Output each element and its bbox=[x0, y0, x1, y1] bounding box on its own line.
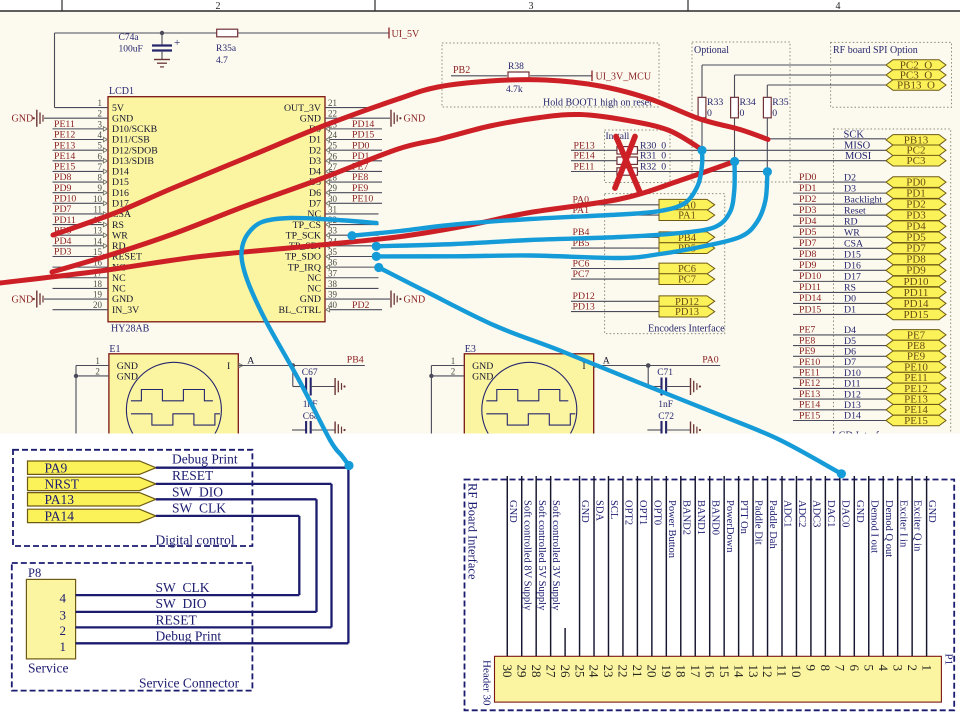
svg-text:2: 2 bbox=[905, 665, 920, 672]
svg-text:D15: D15 bbox=[112, 177, 129, 188]
svg-text:Power Button: Power Button bbox=[666, 500, 677, 559]
svg-text:PE11: PE11 bbox=[54, 119, 75, 130]
svg-text:D13/SDIB: D13/SDIB bbox=[112, 156, 154, 167]
svg-text:RF board SPI Option: RF board SPI Option bbox=[833, 45, 918, 56]
svg-text:PE12: PE12 bbox=[799, 378, 820, 389]
svg-text:GND: GND bbox=[579, 500, 590, 523]
svg-text:D0: D0 bbox=[844, 294, 856, 305]
svg-text:C67: C67 bbox=[302, 368, 318, 378]
svg-text:D5: D5 bbox=[844, 336, 856, 347]
svg-text:OPT1: OPT1 bbox=[637, 500, 648, 525]
svg-text:D14: D14 bbox=[112, 167, 129, 178]
svg-text:GND: GND bbox=[472, 372, 493, 383]
svg-text:1nF: 1nF bbox=[658, 400, 673, 410]
svg-text:26: 26 bbox=[558, 665, 573, 679]
svg-text:PD14: PD14 bbox=[799, 293, 821, 304]
svg-text:PD10: PD10 bbox=[799, 271, 821, 282]
svg-text:6: 6 bbox=[847, 665, 862, 672]
svg-text:10: 10 bbox=[789, 665, 804, 678]
svg-text:19: 19 bbox=[659, 665, 674, 678]
svg-text:GND: GND bbox=[300, 294, 321, 305]
svg-text:7: 7 bbox=[98, 162, 103, 172]
svg-text:A: A bbox=[247, 356, 254, 367]
svg-text:9: 9 bbox=[98, 183, 103, 193]
svg-text:MISO: MISO bbox=[844, 141, 871, 152]
svg-text:PE11: PE11 bbox=[574, 162, 595, 173]
svg-text:ADC2: ADC2 bbox=[796, 500, 807, 527]
svg-text:GND: GND bbox=[472, 361, 493, 372]
svg-text:3: 3 bbox=[529, 1, 534, 12]
svg-text:SCL: SCL bbox=[608, 500, 619, 519]
svg-text:OPT0: OPT0 bbox=[651, 500, 662, 525]
svg-text:GND: GND bbox=[112, 113, 133, 124]
svg-text:5V: 5V bbox=[112, 103, 124, 114]
svg-text:GND: GND bbox=[117, 361, 138, 372]
svg-text:1: 1 bbox=[95, 356, 100, 366]
svg-text:PD14: PD14 bbox=[352, 119, 374, 130]
svg-text:3: 3 bbox=[60, 607, 67, 622]
svg-text:18: 18 bbox=[673, 665, 688, 678]
svg-text:10: 10 bbox=[93, 194, 103, 204]
svg-text:PE13: PE13 bbox=[799, 389, 820, 400]
svg-text:25: 25 bbox=[572, 665, 587, 678]
svg-text:GND: GND bbox=[926, 500, 937, 523]
svg-text:PB4: PB4 bbox=[347, 355, 364, 366]
svg-text:28: 28 bbox=[529, 665, 544, 678]
svg-text:16: 16 bbox=[702, 665, 717, 679]
svg-text:Demod Q out: Demod Q out bbox=[883, 500, 894, 557]
svg-text:PD15: PD15 bbox=[352, 130, 374, 141]
svg-text:RS: RS bbox=[112, 220, 124, 231]
svg-text:2: 2 bbox=[95, 366, 100, 376]
svg-text:7: 7 bbox=[833, 665, 848, 672]
svg-text:PE15: PE15 bbox=[904, 415, 928, 427]
svg-text:PD0: PD0 bbox=[799, 172, 817, 183]
svg-text:C71: C71 bbox=[657, 368, 673, 378]
svg-text:PC6: PC6 bbox=[573, 258, 590, 269]
svg-text:R32 0: R32 0 bbox=[640, 162, 666, 173]
svg-text:D6: D6 bbox=[844, 347, 856, 358]
svg-text:Soft controlled 5V Supply: Soft controlled 5V Supply bbox=[536, 500, 547, 611]
svg-text:PE8: PE8 bbox=[352, 172, 368, 183]
svg-text:PE11: PE11 bbox=[799, 368, 820, 379]
svg-text:PD4: PD4 bbox=[799, 216, 817, 227]
svg-text:IN_3V: IN_3V bbox=[112, 305, 139, 316]
svg-text:D10/SCKB: D10/SCKB bbox=[112, 124, 158, 135]
svg-text:D16: D16 bbox=[112, 188, 129, 199]
svg-text:PD11: PD11 bbox=[799, 282, 821, 293]
svg-text:PE10: PE10 bbox=[352, 194, 373, 205]
svg-text:38: 38 bbox=[328, 279, 338, 289]
svg-text:4.7: 4.7 bbox=[216, 56, 228, 66]
svg-text:PD2: PD2 bbox=[799, 194, 817, 205]
svg-text:WR: WR bbox=[112, 230, 128, 241]
svg-text:GND: GND bbox=[300, 113, 321, 124]
svg-text:R30 0: R30 0 bbox=[640, 140, 666, 151]
svg-text:0: 0 bbox=[740, 108, 745, 119]
svg-text:PA14: PA14 bbox=[45, 509, 75, 524]
svg-text:GND: GND bbox=[854, 500, 865, 523]
svg-text:Header 30: Header 30 bbox=[481, 660, 493, 706]
svg-text:Hold BOOT1 high on reset: Hold BOOT1 high on reset bbox=[543, 98, 652, 109]
svg-text:RF Board Interface: RF Board Interface bbox=[466, 483, 480, 580]
svg-text:RESET: RESET bbox=[156, 612, 198, 627]
svg-text:SW DIO: SW DIO bbox=[156, 596, 207, 611]
svg-text:PE8: PE8 bbox=[799, 335, 815, 346]
svg-text:PTT On: PTT On bbox=[738, 500, 749, 535]
svg-text:PE14: PE14 bbox=[574, 151, 595, 162]
svg-text:37: 37 bbox=[328, 268, 338, 278]
svg-text:TP_SCK: TP_SCK bbox=[286, 230, 321, 241]
svg-text:2: 2 bbox=[216, 1, 221, 12]
svg-text:29: 29 bbox=[514, 665, 529, 678]
svg-text:C72: C72 bbox=[658, 412, 674, 422]
svg-text:24: 24 bbox=[587, 665, 602, 679]
svg-text:PC3: PC3 bbox=[907, 155, 926, 167]
svg-text:PD9: PD9 bbox=[54, 183, 72, 194]
svg-text:PD8: PD8 bbox=[799, 249, 817, 260]
svg-text:LCD1: LCD1 bbox=[109, 86, 134, 97]
svg-text:D12/SDOB: D12/SDOB bbox=[112, 145, 158, 156]
svg-text:2: 2 bbox=[98, 109, 103, 119]
svg-text:4.7k: 4.7k bbox=[506, 85, 523, 95]
svg-text:PA9: PA9 bbox=[45, 461, 68, 476]
svg-text:OUT_3V: OUT_3V bbox=[284, 103, 321, 114]
svg-text:14: 14 bbox=[93, 236, 103, 246]
svg-text:E3: E3 bbox=[465, 344, 476, 355]
svg-text:4: 4 bbox=[836, 1, 841, 12]
svg-text:WR: WR bbox=[844, 227, 860, 238]
svg-text:PC7: PC7 bbox=[573, 269, 590, 280]
svg-text:4: 4 bbox=[60, 591, 67, 606]
svg-text:GND: GND bbox=[112, 294, 133, 305]
svg-text:PA0: PA0 bbox=[702, 355, 719, 366]
svg-text:20: 20 bbox=[93, 300, 103, 310]
svg-text:6: 6 bbox=[98, 151, 103, 161]
svg-text:PA13: PA13 bbox=[45, 492, 75, 507]
svg-text:R33: R33 bbox=[707, 97, 723, 108]
svg-text:D7: D7 bbox=[309, 199, 321, 210]
svg-text:D11: D11 bbox=[844, 379, 861, 390]
svg-text:UI_3V_MCU: UI_3V_MCU bbox=[596, 72, 652, 83]
svg-text:PD3: PD3 bbox=[54, 247, 72, 258]
svg-text:1: 1 bbox=[919, 665, 934, 672]
svg-text:PE14: PE14 bbox=[54, 151, 75, 162]
svg-text:PE9: PE9 bbox=[352, 183, 368, 194]
svg-text:20: 20 bbox=[645, 665, 660, 678]
svg-text:39: 39 bbox=[328, 290, 338, 300]
svg-text:21: 21 bbox=[630, 665, 645, 678]
svg-text:OPT2: OPT2 bbox=[623, 500, 634, 525]
svg-text:D4: D4 bbox=[844, 325, 856, 336]
svg-text:GND: GND bbox=[117, 372, 138, 383]
svg-text:Demod I out: Demod I out bbox=[868, 500, 879, 553]
svg-text:11: 11 bbox=[775, 665, 790, 678]
svg-text:D7: D7 bbox=[844, 357, 856, 368]
svg-text:Reset: Reset bbox=[844, 205, 866, 216]
svg-text:D13: D13 bbox=[844, 400, 861, 411]
svg-text:C74a: C74a bbox=[119, 33, 140, 43]
svg-text:PD15: PD15 bbox=[903, 309, 929, 321]
svg-text:ADC3: ADC3 bbox=[811, 500, 822, 527]
svg-text:13: 13 bbox=[93, 226, 103, 236]
svg-text:SDA: SDA bbox=[594, 500, 605, 521]
svg-text:GND: GND bbox=[12, 114, 34, 125]
svg-text:Exciter I in: Exciter I in bbox=[897, 500, 908, 548]
svg-text:TP_IRQ: TP_IRQ bbox=[288, 262, 321, 273]
svg-text:D16: D16 bbox=[844, 261, 861, 272]
svg-text:DAC1: DAC1 bbox=[825, 500, 836, 527]
svg-text:PE10: PE10 bbox=[799, 357, 820, 368]
svg-text:D4: D4 bbox=[309, 167, 321, 178]
svg-text:23: 23 bbox=[601, 665, 616, 678]
svg-text:Debug Print: Debug Print bbox=[156, 628, 222, 643]
svg-text:PB2: PB2 bbox=[453, 65, 470, 76]
svg-text:PB13 O: PB13 O bbox=[897, 79, 935, 91]
svg-text:PE14: PE14 bbox=[799, 400, 820, 411]
svg-text:Paddle Dah: Paddle Dah bbox=[767, 500, 778, 549]
svg-text:Paddle Dit: Paddle Dit bbox=[753, 500, 764, 545]
svg-text:D6: D6 bbox=[309, 188, 321, 199]
svg-text:PD8: PD8 bbox=[54, 172, 72, 183]
svg-text:12: 12 bbox=[760, 665, 775, 678]
svg-text:Exciter Q in: Exciter Q in bbox=[912, 500, 923, 552]
svg-text:SW DIO: SW DIO bbox=[172, 485, 223, 500]
svg-text:PE13: PE13 bbox=[54, 140, 75, 151]
svg-text:NC: NC bbox=[307, 273, 321, 284]
svg-text:PE13: PE13 bbox=[574, 140, 595, 151]
svg-text:30: 30 bbox=[500, 665, 515, 678]
svg-text:2: 2 bbox=[451, 366, 456, 376]
svg-text:D12: D12 bbox=[844, 389, 861, 400]
svg-text:PD7: PD7 bbox=[799, 238, 817, 249]
svg-text:Backlight: Backlight bbox=[844, 194, 882, 205]
svg-text:BAND2: BAND2 bbox=[680, 500, 691, 535]
svg-text:17: 17 bbox=[688, 665, 703, 679]
svg-text:9: 9 bbox=[804, 665, 819, 672]
svg-text:PA1: PA1 bbox=[678, 211, 696, 222]
svg-text:PD9: PD9 bbox=[799, 260, 817, 271]
svg-text:4: 4 bbox=[98, 130, 103, 140]
svg-text:A: A bbox=[603, 356, 610, 367]
svg-text:D10: D10 bbox=[844, 368, 861, 379]
svg-text:18: 18 bbox=[93, 279, 103, 289]
svg-text:HY28AB: HY28AB bbox=[111, 324, 150, 335]
svg-text:Soft controlled 8V Supply: Soft controlled 8V Supply bbox=[521, 500, 532, 611]
svg-text:BAND0: BAND0 bbox=[709, 500, 720, 535]
svg-text:14: 14 bbox=[731, 665, 746, 679]
svg-text:PD13: PD13 bbox=[675, 307, 699, 318]
svg-text:E1: E1 bbox=[109, 344, 120, 355]
svg-text:NC: NC bbox=[112, 284, 126, 295]
svg-text:D11/CSB: D11/CSB bbox=[112, 135, 150, 146]
svg-text:DAC0: DAC0 bbox=[839, 500, 850, 527]
svg-text:ADC1: ADC1 bbox=[782, 500, 793, 527]
svg-text:PE9: PE9 bbox=[799, 346, 815, 357]
svg-text:D2: D2 bbox=[309, 145, 321, 156]
svg-text:NC: NC bbox=[112, 273, 126, 284]
svg-text:BL_CTRL: BL_CTRL bbox=[279, 305, 321, 316]
svg-text:RD: RD bbox=[844, 216, 858, 227]
svg-text:5: 5 bbox=[861, 665, 876, 672]
svg-text:I: I bbox=[227, 361, 230, 372]
svg-text:PE7: PE7 bbox=[799, 325, 815, 336]
svg-text:3: 3 bbox=[98, 119, 103, 129]
svg-text:BAND1: BAND1 bbox=[695, 500, 706, 535]
svg-text:PD11: PD11 bbox=[54, 215, 76, 226]
svg-text:PD1: PD1 bbox=[799, 183, 817, 194]
svg-text:SW CLK: SW CLK bbox=[156, 580, 210, 595]
svg-text:13: 13 bbox=[746, 665, 761, 678]
svg-text:Service Connector: Service Connector bbox=[139, 676, 240, 691]
svg-text:NRST: NRST bbox=[45, 477, 80, 492]
svg-text:11: 11 bbox=[93, 204, 102, 214]
svg-text:R34: R34 bbox=[740, 97, 756, 108]
svg-text:PD10: PD10 bbox=[54, 194, 76, 205]
svg-text:22: 22 bbox=[328, 109, 337, 119]
svg-text:PD5: PD5 bbox=[799, 227, 817, 238]
svg-text:PE15: PE15 bbox=[54, 162, 75, 173]
svg-text:PowerDown: PowerDown bbox=[724, 500, 735, 553]
svg-text:D1: D1 bbox=[844, 305, 856, 316]
svg-text:TP_CS: TP_CS bbox=[293, 220, 321, 231]
svg-text:PC7: PC7 bbox=[678, 275, 696, 286]
svg-text:D15: D15 bbox=[844, 250, 861, 261]
svg-text:22: 22 bbox=[616, 665, 631, 678]
svg-text:Soft controlled 3V Supply: Soft controlled 3V Supply bbox=[550, 500, 561, 611]
svg-text:PD4: PD4 bbox=[54, 236, 72, 247]
svg-text:0: 0 bbox=[772, 108, 777, 119]
svg-text:TP_SDO: TP_SDO bbox=[285, 252, 321, 263]
svg-text:1: 1 bbox=[98, 98, 103, 108]
svg-text:D2: D2 bbox=[844, 172, 856, 183]
svg-text:1: 1 bbox=[60, 639, 67, 654]
svg-text:R35: R35 bbox=[772, 97, 788, 108]
svg-text:RS: RS bbox=[844, 283, 856, 294]
svg-text:PE12: PE12 bbox=[54, 130, 75, 141]
svg-text:R31 0: R31 0 bbox=[640, 151, 666, 162]
svg-text:Encoders Interface: Encoders Interface bbox=[648, 323, 725, 334]
svg-text:15: 15 bbox=[717, 665, 732, 678]
svg-text:GND: GND bbox=[404, 295, 426, 306]
svg-text:GND: GND bbox=[404, 114, 426, 125]
svg-text:MOSI: MOSI bbox=[845, 151, 872, 162]
svg-text:PE15: PE15 bbox=[799, 410, 820, 421]
svg-text:PD3: PD3 bbox=[799, 205, 817, 216]
svg-text:P1: P1 bbox=[943, 654, 955, 666]
svg-text:D1: D1 bbox=[309, 135, 321, 146]
svg-text:PD13: PD13 bbox=[573, 301, 595, 312]
svg-text:PD15: PD15 bbox=[799, 304, 821, 315]
svg-text:3: 3 bbox=[890, 665, 905, 672]
svg-text:D17: D17 bbox=[844, 272, 861, 283]
svg-text:D14: D14 bbox=[844, 411, 861, 422]
svg-text:19: 19 bbox=[93, 290, 103, 300]
svg-text:CSA: CSA bbox=[844, 238, 863, 249]
svg-text:1: 1 bbox=[451, 356, 456, 366]
svg-text:5: 5 bbox=[98, 141, 103, 151]
svg-text:RESET: RESET bbox=[172, 468, 214, 483]
svg-text:21: 21 bbox=[328, 98, 337, 108]
svg-text:+: + bbox=[174, 37, 180, 49]
svg-text:D3: D3 bbox=[844, 183, 856, 194]
svg-text:GND: GND bbox=[507, 500, 518, 523]
svg-text:Optional: Optional bbox=[694, 45, 729, 56]
svg-text:GND: GND bbox=[12, 295, 34, 306]
svg-text:2: 2 bbox=[60, 623, 67, 638]
svg-text:4: 4 bbox=[876, 665, 891, 672]
svg-text:D3: D3 bbox=[309, 156, 321, 167]
svg-text:Debug Print: Debug Print bbox=[172, 452, 238, 467]
svg-text:Service: Service bbox=[28, 661, 68, 676]
svg-text:27: 27 bbox=[543, 665, 558, 679]
svg-text:R35a: R35a bbox=[216, 44, 237, 54]
svg-text:NC: NC bbox=[307, 284, 321, 295]
svg-text:PD7: PD7 bbox=[54, 204, 72, 215]
svg-text:UI_5V: UI_5V bbox=[392, 29, 421, 40]
svg-text:0: 0 bbox=[707, 108, 712, 119]
svg-text:8: 8 bbox=[98, 173, 103, 183]
svg-text:100uF: 100uF bbox=[119, 45, 143, 55]
svg-text:8: 8 bbox=[818, 665, 833, 672]
svg-text:Digital control: Digital control bbox=[156, 533, 235, 548]
svg-text:SW CLK: SW CLK bbox=[172, 501, 226, 516]
svg-text:R38: R38 bbox=[508, 62, 524, 72]
svg-text:P8: P8 bbox=[28, 566, 41, 580]
svg-text:PD0: PD0 bbox=[352, 140, 370, 151]
svg-text:SCK: SCK bbox=[844, 129, 865, 140]
svg-text:PD2: PD2 bbox=[352, 300, 370, 311]
svg-text:31: 31 bbox=[328, 204, 337, 214]
